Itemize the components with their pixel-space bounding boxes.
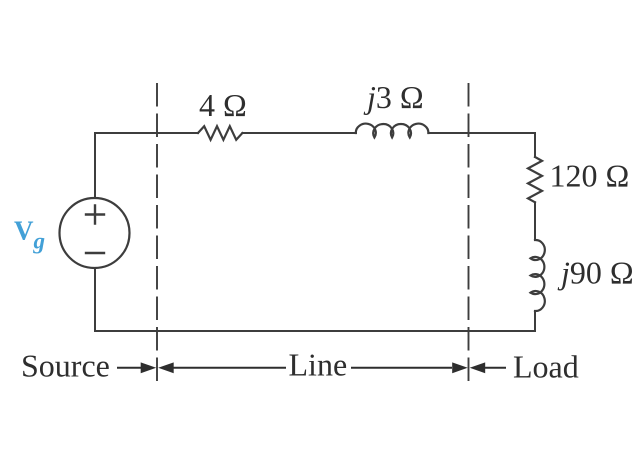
wire: right drop to load resistor <box>534 133 536 157</box>
wire: left bottom from source to corner <box>94 268 96 331</box>
svg-text:120 Ω: 120 Ω <box>550 157 630 193</box>
svg-text:Source: Source <box>21 347 110 383</box>
resistor R line (4 ohm) zigzag <box>198 126 242 140</box>
wire: top-middle segment between resistor and inductor <box>242 132 356 134</box>
measure arrow: Line left-pointing <box>158 362 174 373</box>
inductor L line (j3 ohm) four humps <box>356 124 429 138</box>
wire: top-right segment from inductor to corner <box>428 132 535 134</box>
wire: top-left segment from source to resistor <box>95 132 198 134</box>
resistor R load (120 ohm) vertical zigzag <box>528 157 542 202</box>
polarity - mark <box>86 252 104 254</box>
polarity + mark <box>86 206 104 224</box>
svg-text:Load: Load <box>513 349 579 385</box>
svg-text:j90 Ω: j90 Ω <box>557 255 634 291</box>
svg-text:Vg: Vg <box>14 216 45 254</box>
svg-text:4 Ω: 4 Ω <box>199 87 247 123</box>
inductor L load (j90 ohm) vertical four humps <box>531 240 545 311</box>
voltage source Vg circle <box>60 198 130 268</box>
dashed boundary line line/load <box>468 84 470 380</box>
wire: right segment from inductor to bottom corner <box>534 311 536 331</box>
measure arrow: Source right-pointing <box>117 367 141 369</box>
measure arrow: Line right-pointing <box>351 367 452 369</box>
wire: left top from corner to source <box>94 133 96 198</box>
dashed boundary line source/line <box>156 84 158 380</box>
wire: bottom return <box>95 330 535 332</box>
measure arrow: Load left-pointing <box>470 362 486 373</box>
svg-text:Line: Line <box>289 347 348 383</box>
svg-text:j3 Ω: j3 Ω <box>363 79 424 115</box>
wire: right segment between load resistor and load inductor <box>534 202 536 240</box>
